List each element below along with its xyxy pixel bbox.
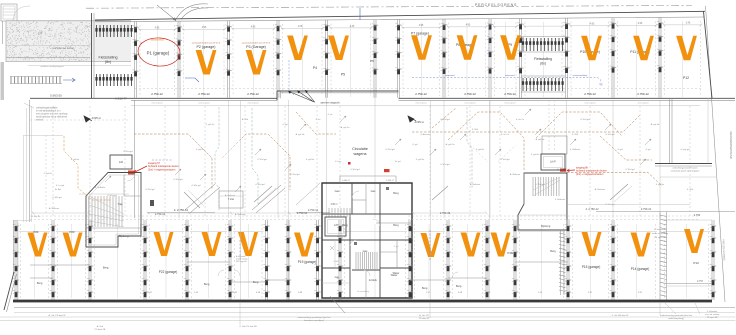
lift room left [110,155,132,169]
svg-text:Gas: Gas [363,249,368,253]
center core dims above [342,180,395,182]
parking mark V P10 [581,36,602,61]
bottom stalls top dashed right [408,219,700,221]
svg-text:1.05: 1.05 [298,26,303,28]
parking mark V P15 [582,232,602,256]
site boundary line PERCEELSGRENS [86,6,692,9]
svg-text:ondermathing grandvogel (per b: ondermathing grandvogel (per bxt [298,316,331,319]
parking mark V P24 [28,233,48,257]
svg-text:4. gxl Hx: 4. gxl Hx [196,149,205,151]
wall P16|core3 [512,220,518,300]
blue pipe left [152,159,172,161]
leader arrows middle band [105,109,651,192]
divider continuation line x375 [374,93,376,218]
wall P2|P3 [225,21,231,98]
entry diagonals bottom right [432,184,632,202]
wall P24|P23 [50,220,56,300]
svg-text:4. gxl Hx: 4. gxl Hx [71,159,80,161]
grid dashed vertical x205 [204,106,206,216]
svg-text:PERCEELSGRENS: PERCEELSGRENS [475,3,517,7]
svg-text:P19 (garage): P19 (garage) [298,260,317,264]
svg-text:4. Wxl gxl: 4. Wxl gxl [255,184,265,186]
manoeuvre path dashed right b [448,112,524,170]
svg-text:aanstandsmodel voor W tm 5: aanstandsmodel voor W tm 5 [192,42,221,45]
svg-text:1.950.17: 1.950.17 [386,180,395,182]
parking mark V P22 [154,232,174,256]
dim line mid [148,208,215,213]
svg-text:P2 (garage): P2 (garage) [197,45,216,49]
divider continuation line x490 [489,101,491,219]
arrows aanrijden [288,90,315,103]
svg-text:2.750-12: 2.750-12 [415,92,427,96]
svg-text:A. Grt. P5: A. Grt. P5 [419,314,429,317]
svg-text:4. gxl Gx: 4. gxl Gx [44,173,54,175]
divider continuation line x326.5 [326,93,328,218]
svg-text:Berg: Berg [393,223,399,227]
middle dashed horizontal lower right [408,215,700,217]
blue water texts [445,74,515,77]
right core lift box [541,154,565,170]
bottom thin line 2 [0,320,736,322]
left area tiny texts [32,173,65,218]
corner box [1,4,17,21]
svg-text:4. gxl Hx: 4. gxl Hx [656,184,665,186]
svg-text:opakken verdiepingsput: opakken verdiepingsput [40,65,63,68]
manoeuvre path dashed left a [134,134,212,190]
svg-text:4. Axtxxtx: 4. Axtxxtx [420,133,430,136]
top right room walls [655,98,716,177]
svg-text:Trap: Trap [117,202,123,206]
stall interior guide lines bottom [19,224,710,298]
svg-text:WC bxgx-Hx: WC bxgx-Hx [236,261,247,263]
svg-text:A. Bxl: A. Bxl [55,188,61,191]
svg-text:2.750-12: 2.750-12 [297,211,308,215]
left horizontal line mid2 [79,193,129,195]
wall P3|P4 [275,20,281,97]
red leader arrow right [567,169,575,172]
ramp area texts [38,32,75,68]
svg-text:T.stat: T.stat [228,197,234,201]
svg-text:A. Gxk: A. Gxk [97,325,104,328]
svg-text:Berg: Berg [550,249,556,253]
svg-text:2.750-12: 2.750-12 [464,92,476,96]
blue mark e [239,240,241,260]
stall interior guide lines top [139,21,703,97]
svg-text:Berg: Berg [393,191,399,195]
svg-text:aanmeer stagachtt: aanmeer stagachtt [320,102,339,105]
svg-text:4. gxl Hx: 4. gxl Hx [476,149,485,151]
svg-text:Lift P: Lift P [550,161,556,164]
svg-text:4. Wxl gxl: 4. Wxl gxl [123,151,133,153]
svg-text:A. bxmxxxt: A. bxmxxxt [236,255,246,258]
left core outline [86,173,141,248]
parking mark V P4 [287,36,308,61]
arrow symbol left [84,116,92,122]
svg-text:4. kxp: 4. kxp [335,161,342,163]
svg-text:xx xx xb. xxxhxg: xx xx xb. xxxhxg [705,314,720,316]
svg-text:onthardingsinstallatie: onthardingsinstallatie [36,107,58,110]
svg-text:Berg.: Berg. [422,286,428,290]
berg partition lines [30,223,568,282]
top stalls front wall middle [277,91,399,93]
parking mark V P8 [457,35,478,60]
svg-text:4. txt Cx: 4. txt Cx [501,133,510,136]
right slanted boundary [704,6,726,302]
svg-text:Fietsstalling: Fietsstalling [99,56,118,60]
red door mark left core [128,171,135,175]
parking mark V P14 [631,233,651,257]
wall P19|x [314,220,320,300]
svg-text:4.95: 4.95 [638,23,643,25]
svg-text:2.750: 2.750 [694,213,701,217]
grid dashed vertical x430 [429,106,431,216]
grid dashed vertical x53 [52,106,54,216]
svg-text:PS xpxrt 4B: PS xpxrt 4B [707,316,718,319]
svg-text:GRONDWATERSTAND: GRONDWATERSTAND [729,131,733,158]
svg-text:verticaalpunt: verticaalpunt [247,102,259,105]
svg-text:4. Bxllxntx: 4. Bxllxntx [570,148,581,151]
bottom second line [14,307,735,309]
svg-text:aanpassing: aanpassing [151,39,164,42]
svg-text:Berg.: Berg. [253,280,259,284]
bottom stalls dim texts [155,207,701,217]
midband small chevrons [194,140,516,162]
grid dashed vertical x317 [316,106,318,216]
right core upper shaft [542,136,567,154]
grid dashed vertical x590 [589,106,591,216]
teal drain line left [215,107,219,210]
svg-text:4. Grt. A5 dwrt W: 4. Grt. A5 dwrt W [612,314,630,317]
svg-text:4. Lx gxl: 4. Lx gxl [56,185,65,187]
svg-text:Berg.: Berg. [204,282,210,286]
scattered annotation texts [55,113,693,239]
svg-text:P24: P24 [34,230,39,234]
left entry arcs [13,6,30,21]
svg-text:verluchtingsrooster boven: verluchtingsrooster boven [672,167,698,170]
divider continuation line x613 [612,101,614,219]
center core small marks [330,162,389,250]
svg-text:2.750-12: 2.750-12 [247,92,259,96]
entry diagonals bottom left [184,186,276,208]
svg-text:ondersteuning geotextiel (bxn: ondersteuning geotextiel (bxn bxt [660,314,693,317]
label Fietsstalling 8x [99,56,118,65]
left interior wall line [134,101,136,219]
right core stair outline [518,173,567,230]
left horizontal line mid [24,135,64,137]
manoeuvre path dashed left c [296,112,336,134]
svg-text:4.95: 4.95 [419,25,424,27]
parking mark V P11 [633,36,654,61]
svg-text:4. Wxl gxl: 4. Wxl gxl [385,149,395,151]
wall core2|P18 [407,220,413,300]
svg-text:A. gxl Hx: A. gxl Hx [536,138,546,141]
svg-text:4. Mxl gxl: 4. Mxl gxl [191,185,201,187]
bottom guide vertical a [239,303,241,325]
long manoeuvre dashed right2 [567,173,662,187]
orange entry path [64,136,112,200]
svg-text:2.750-12: 2.750-12 [308,208,319,212]
parking mark V P5 [328,36,349,61]
center core top stub [340,176,396,183]
P13 stall bottom lines [667,220,712,286]
svg-text:tel aansluiting: tel aansluiting [357,290,369,293]
right core inner [518,173,567,228]
blue mark f [429,230,431,260]
bottom leader diagonal c [330,296,345,313]
bottom dim line segs [32,212,487,215]
grid dashed vertical x340 [339,106,341,216]
svg-text:wateraansl.: wateraansl. [505,74,515,77]
stipple underlay [6,21,131,62]
svg-text:4. Wxl gxl: 4. Wxl gxl [580,119,590,121]
svg-text:A. gxl Gx: A. gxl Gx [446,143,456,146]
door post mark [150,200,154,206]
svg-text:-0.95 m: -0.95 m [91,116,102,120]
bike racks right bay bottom [522,78,564,91]
svg-text:wagens: wagens [353,152,366,156]
center core door arcs [350,191,380,276]
svg-text:4. Wxl gxl: 4. Wxl gxl [145,189,155,191]
svg-text:4. gxl: 4. gxl [645,149,651,151]
left wall lower [14,220,19,300]
svg-text:P22 (garage): P22 (garage) [159,270,178,274]
wall fietsstalling|P10 [563,18,569,98]
left dashed vertical x46 [45,135,47,215]
svg-text:A. Bxllxntx: A. Bxllxntx [49,207,60,210]
wall P1|P2 [176,21,182,98]
svg-text:4. gxl Hx: 4. gxl Hx [416,159,425,161]
svg-text:A. Bxllxntx: A. Bxllxntx [510,173,521,176]
svg-text:A. gxl: A. gxl [557,168,563,171]
svg-text:4. Wxl: 4. Wxl [687,189,694,191]
divider continuation line x278 [277,93,279,218]
bottom extra line [14,312,735,314]
parking mark V P7 [411,35,432,60]
parking mark V P13 [684,229,704,253]
wall P9|fietsstalling [517,18,523,97]
svg-text:4. Gxk P5 dxrt 4B: 4. Gxk P5 dxrt 4B [239,325,257,328]
wall P18|P17 [445,220,451,300]
grid dashed vertical x245 [244,106,246,216]
thin column line x489.5 [489,100,491,300]
note text block left [36,107,68,122]
wall P21|P20 [227,220,233,300]
grid dashed vertical x125 [124,106,126,216]
manoeuvre path dashed right d [600,136,652,160]
svg-text:Berg.: Berg. [456,284,462,288]
svg-text:Lift: Lift [119,160,123,164]
wall P23|core [87,220,93,300]
parking mark V P9 [500,35,521,60]
parking mark V P16 [491,233,511,257]
grid dashed vertical x165 [164,106,166,216]
teal drain line right [467,107,472,188]
wall P22|P21 [184,220,190,300]
big diagonals near trafo [185,183,320,213]
wall P8|P9 [487,19,493,98]
wall P10|P11 [610,18,616,98]
svg-text:P5 dwrt W: P5 dwrt W [419,317,430,320]
wall P20 mid [263,220,269,300]
svg-text:4. gxl: 4. gxl [617,149,623,151]
svg-text:verticaalpunt: verticaalpunt [151,102,163,105]
wall P6|P7 [395,19,401,97]
svg-text:4. Wxl gxl: 4. Wxl gxl [605,134,615,136]
leader diagonal to wall [157,5,176,21]
manoeuvre path dashed left b [222,134,290,190]
svg-text:Rijnberg.: Rijnberg. [119,234,130,238]
svg-text:A. gxl Hx: A. gxl Hx [651,123,661,126]
wall P14|P13 hatched [660,212,667,300]
bike racks left bay top [95,25,132,37]
svg-text:4. gxl Hx: 4. gxl Hx [531,154,540,156]
svg-text:wordt opbouw wit gr afsluitend: wordt opbouw wit gr afsluitend [36,116,68,119]
top stalls front wall right [399,98,736,100]
svg-text:2.750-12: 2.750-12 [584,92,596,96]
center core stair treads [356,252,377,269]
svg-text:Berg: Berg [342,223,348,227]
divider continuation line x660 [659,101,661,219]
parking mark V P23 [63,233,83,257]
svg-text:P14 (garage): P14 (garage) [631,267,650,271]
blue water line long [412,77,569,79]
blue mark d [488,26,490,56]
svg-text:A. Bxllxntx: A. Bxllxntx [470,183,481,186]
grid dashed vertical x285 [284,106,286,216]
svg-text:2.757: 2.757 [697,280,704,283]
center core lift box [325,217,346,236]
svg-text:4.95: 4.95 [202,27,207,29]
building top wall [95,11,705,21]
bottom texts [48,310,719,331]
svg-text:onderlaagslaag): onderlaagslaag) [668,317,684,320]
bottom leader diagonal b [695,303,700,314]
driveway entry arcs [176,4,208,20]
left outer wall [24,100,32,222]
svg-text:2.750-12: 2.750-12 [155,212,166,216]
svg-text:4. Sxhxdxnt: 4. Sxhxdxnt [707,310,718,313]
svg-text:4. Wxl gxl: 4. Wxl gxl [257,159,267,161]
svg-text:4. Wxl: 4. Wxl [333,261,339,263]
svg-text:1.50: 1.50 [38,32,43,35]
note leader left [24,103,34,108]
wall P11|P12 [657,17,663,97]
svg-text:(6x): (6x) [540,62,546,66]
svg-text:A. Bxrlxntx: A. Bxrlxntx [595,188,606,191]
svg-text:4. gxl: 4. gxl [412,144,418,146]
svg-text:Rijnberg.: Rijnberg. [541,225,551,228]
svg-text:(2m) + magneetcontacten: (2m) + magneetcontacten [148,168,176,171]
thin column line x288.5 [288,100,290,300]
svg-text:4.95: 4.95 [251,27,256,29]
svg-text:4. Wxl gxl: 4. Wxl gxl [290,174,300,176]
svg-text:5.663.00: 5.663.00 [50,94,62,98]
left core outline inner [89,175,139,245]
svg-text:4. Dxl Px: 4. Dxl Px [32,216,42,218]
thin column line x240.5 [240,100,242,300]
bike racks right bay top [522,38,564,51]
blue mark b [289,60,295,96]
svg-text:2.45: 2.45 [686,23,691,25]
parking mark V P12 [676,36,697,61]
svg-text:Berg.: Berg. [103,266,109,270]
front wall step jog [277,91,281,100]
grid dashed vertical x640 [639,106,641,216]
parking mark V P3 [246,50,267,75]
svg-text:4. Wxl gxl: 4. Wxl gxl [350,169,360,171]
red door mark center core [384,169,390,172]
left vertical wall top [3,21,14,44]
parking mark V P19 [294,233,314,257]
parking mark V P18 [421,233,441,257]
svg-text:P12: P12 [683,76,689,80]
bottom heavy wall [13,300,712,303]
svg-text:2.750-12: 2.750-12 [637,92,649,96]
svg-text:4. gxl Hx: 4. gxl Hx [306,159,315,161]
svg-text:4. txt Cx: 4. txt Cx [516,118,525,121]
svg-text:Gas: Gas [371,189,376,193]
svg-text:P5: P5 [341,73,345,77]
building left wall [92,13,95,98]
svg-text:4. gxl Gx: 4. gxl Gx [206,124,216,126]
line under top stalls [131,105,700,107]
right core dashed link [549,100,555,150]
right core lower wall [561,230,565,295]
teal drain line center [252,108,258,204]
svg-text:P13: P13 [693,261,699,265]
label Fietsstalling 6x [534,57,552,66]
right core stair radiating [533,177,560,196]
hatched ramp strip [10,77,62,84]
svg-text:4. 2.750-12: 4. 2.750-12 [585,207,599,211]
svg-text:A. gxl Hx: A. gxl Hx [296,133,306,136]
svg-text:pompput met deksel: pompput met deksel [52,47,74,50]
svg-text:en wit aanbplating k.m.v: en wit aanbplating k.m.v [36,110,61,113]
left core stair treads [89,196,122,227]
svg-text:2.750-12: 2.750-12 [641,207,652,211]
svg-text:4. txt: 4. txt [328,113,333,116]
ramp area outline [6,21,131,66]
wall right outer [710,220,716,300]
berg labels [37,223,556,290]
bottom dim line right upper [568,204,690,206]
wall P4|P5 [323,20,329,98]
red note toegang right [576,167,608,176]
wall bottom far left [13,220,19,300]
svg-text:A. Grt. P5 dwrt W: A. Grt. P5 dwrt W [48,314,66,317]
svg-text:Berg.: Berg. [37,281,43,285]
stippled ramp surface [7,22,92,61]
svg-text:4. Wxl gxl: 4. Wxl gxl [500,159,510,161]
wall left of P1 [132,21,138,97]
grid dashed vertical x90 [89,106,91,216]
divider continuation line x444 [443,101,445,219]
svg-text:met uit goten soft met voorloo: met uit goten soft met voorloop [36,113,68,116]
bottom dims row [148,292,643,294]
center core tiny notes [333,246,398,293]
svg-text:A. gxl: A. gxl [395,160,401,163]
wall core|P22 [142,220,148,300]
center core inner walls [322,183,412,298]
right core wall ticks [559,233,566,292]
svg-text:Gas: Gas [335,189,340,193]
svg-text:sectionale poort op te kappen: sectionale poort op te kappen [671,170,700,173]
svg-text:verticaalpunt: verticaalpunt [637,102,649,105]
right core stair treads [533,177,559,196]
wall P15|P14 [610,220,616,300]
arrow symbol right [408,116,416,122]
svg-text:4. kxp gxl: 4. kxp gxl [680,149,690,151]
